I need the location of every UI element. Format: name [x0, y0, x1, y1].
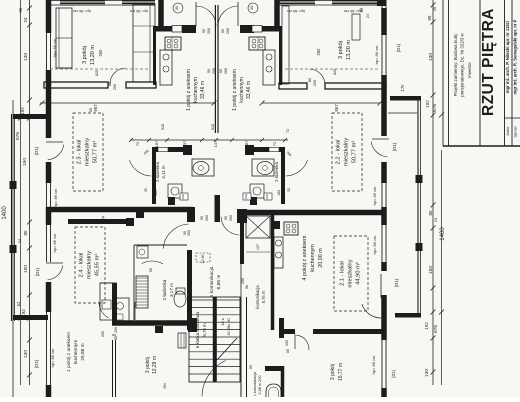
- svg-text:(D1): (D1): [396, 43, 401, 52]
- svg-text:80: 80: [249, 365, 253, 369]
- svg-text:200: 200: [229, 215, 233, 221]
- svg-text:kuchennym: kuchennym: [193, 77, 199, 103]
- svg-text:hp= 86 cm: hp= 86 cm: [52, 233, 57, 252]
- svg-text:13,20 m: 13,20 m: [346, 40, 352, 60]
- svg-text:50,77 m²: 50,77 m²: [352, 141, 358, 164]
- svg-text:200: 200: [226, 28, 230, 34]
- svg-text:200: 200: [207, 28, 211, 34]
- svg-text:192: 192: [20, 107, 25, 115]
- svg-text:137: 137: [256, 244, 260, 250]
- svg-text:3 pokój: 3 pokój: [330, 364, 336, 380]
- svg-text:5 komunikacja: 5 komunikacja: [209, 266, 215, 297]
- svg-text:30: 30: [249, 5, 254, 10]
- svg-text:90: 90: [207, 69, 211, 73]
- svg-text:90: 90: [202, 29, 206, 33]
- svg-text:96: 96: [245, 285, 249, 289]
- svg-text:RZUT PIĘTRA: RZUT PIĘTRA: [480, 8, 497, 116]
- svg-text:528: 528: [211, 124, 215, 130]
- svg-text:6,86 m: 6,86 m: [216, 275, 222, 290]
- svg-text:2 łazienka: 2 łazienka: [155, 162, 160, 182]
- svg-text:187: 187: [154, 140, 159, 147]
- svg-text:130: 130: [428, 53, 434, 61]
- svg-text:26: 26: [432, 6, 437, 11]
- svg-text:130: 130: [424, 369, 430, 377]
- svg-text:2 łazienka: 2 łazienka: [274, 162, 279, 182]
- svg-text:(D1): (D1): [392, 142, 397, 151]
- svg-text:200: 200: [187, 230, 191, 236]
- svg-text:72: 72: [272, 141, 277, 146]
- svg-text:3 pokój: 3 pokój: [82, 46, 88, 64]
- svg-text:95: 95: [427, 15, 432, 21]
- svg-text:80: 80: [286, 349, 290, 353]
- svg-text:1 pokój z aneksem: 1 pokój z aneksem: [232, 69, 238, 111]
- svg-text:676: 676: [433, 325, 439, 333]
- svg-text:9,75 m: 9,75 m: [202, 323, 207, 337]
- svg-text:192: 192: [425, 100, 430, 108]
- svg-text:hp= 86 cm: hp= 86 cm: [372, 186, 377, 205]
- svg-text:250: 250: [98, 49, 103, 57]
- svg-text:pensjonatowego, Dz. Nr 322/3 w: pensjonatowego, Dz. Nr 322/3 w: [460, 32, 465, 96]
- svg-text:(D2): (D2): [244, 194, 248, 200]
- svg-text:45,55 m²: 45,55 m²: [95, 254, 101, 277]
- svg-text:mieszkalny: mieszkalny: [85, 138, 91, 166]
- svg-text:mieszkalny: mieszkalny: [348, 259, 354, 287]
- svg-text:957: 957: [334, 104, 339, 112]
- svg-text:Autor: Autor: [505, 126, 510, 136]
- svg-text:1 pokój z aneksem: 1 pokój z aneksem: [186, 69, 192, 111]
- svg-text:85: 85: [23, 230, 28, 236]
- svg-text:184: 184: [154, 190, 158, 196]
- svg-text:4 pokój z aneksem: 4 pokój z aneksem: [302, 235, 308, 280]
- svg-text:5,75 m: 5,75 m: [261, 290, 266, 303]
- svg-text:13,20 m: 13,20 m: [90, 45, 96, 65]
- svg-text:24: 24: [17, 238, 22, 243]
- svg-text:1400: 1400: [2, 206, 8, 220]
- svg-text:hp= 66 cm: hp= 66 cm: [344, 9, 362, 13]
- svg-text:12,90: 12,90: [201, 255, 205, 264]
- svg-text:30: 30: [174, 5, 179, 10]
- svg-text:200: 200: [224, 68, 228, 74]
- svg-text:825: 825: [95, 70, 99, 76]
- svg-text:200: 200: [113, 84, 117, 90]
- svg-text:72: 72: [135, 141, 140, 146]
- svg-text:16,08x 30: 16,08x 30: [226, 317, 231, 335]
- svg-text:33,46 m: 33,46 m: [246, 81, 252, 99]
- svg-text:24: 24: [433, 217, 438, 222]
- svg-text:170: 170: [400, 84, 405, 92]
- svg-text:Projekt zamienny: Budowa budy: Projekt zamienny: Budowa budy: [453, 33, 458, 97]
- svg-text:200: 200: [241, 278, 245, 284]
- svg-text:130: 130: [23, 53, 29, 61]
- svg-text:200: 200: [101, 331, 105, 337]
- svg-text:hp= 86 cm: hp= 86 cm: [372, 235, 377, 254]
- svg-text:80: 80: [308, 78, 312, 82]
- svg-text:24: 24: [23, 17, 28, 23]
- svg-text:hp= 86 cm: hp= 86 cm: [371, 355, 376, 374]
- svg-text:50: 50: [89, 108, 93, 112]
- svg-text:hp= 86 cm: hp= 86 cm: [50, 348, 55, 367]
- svg-text:18 x: 18 x: [220, 318, 225, 326]
- svg-text:200: 200: [313, 80, 317, 86]
- svg-text:komunikacja: komunikacja: [255, 285, 260, 309]
- svg-text:3 pokój: 3 pokój: [145, 357, 151, 373]
- svg-text:72: 72: [286, 129, 290, 133]
- svg-text:(D1): (D1): [34, 146, 39, 155]
- svg-text:150: 150: [22, 158, 28, 166]
- svg-text:184: 184: [277, 190, 281, 196]
- svg-text:2.3 - lokal: 2.3 - lokal: [77, 140, 83, 165]
- svg-text:(D1): (D1): [394, 278, 399, 287]
- svg-text:50: 50: [219, 69, 223, 73]
- svg-text:1 pokój z aneksem: 1 pokój z aneksem: [66, 332, 72, 372]
- svg-text:4,11 m: 4,11 m: [280, 165, 285, 178]
- svg-text:kuchennym: kuchennym: [239, 77, 245, 103]
- svg-text:(D2): (D2): [181, 194, 185, 200]
- svg-text:mgr inż. arch. R. Semagalski u: mgr inż. arch. R. Semagalski upr. nr P: [513, 19, 518, 94]
- svg-text:1 komunikacja: 1 komunikacja: [253, 371, 257, 396]
- svg-text:mieszkalny: mieszkalny: [87, 251, 93, 279]
- svg-text:20,00 m: 20,00 m: [318, 248, 324, 268]
- svg-text:(D2): (D2): [265, 194, 269, 200]
- svg-text:(D1): (D1): [35, 267, 40, 276]
- svg-text:Spraw: Spraw: [513, 126, 518, 137]
- svg-text:Inwestor: Inwestor: [467, 61, 472, 77]
- svg-text:(D1): (D1): [391, 369, 396, 378]
- svg-text:33,46 m: 33,46 m: [200, 81, 206, 99]
- svg-text:29,88 m: 29,88 m: [80, 343, 86, 360]
- svg-text:50,77 m²: 50,77 m²: [93, 141, 99, 164]
- svg-text:85: 85: [428, 210, 433, 216]
- svg-text:150: 150: [428, 266, 434, 274]
- svg-text:90: 90: [200, 216, 204, 220]
- svg-text:200: 200: [285, 340, 289, 346]
- svg-text:hp= 86 cm: hp= 86 cm: [53, 188, 58, 207]
- svg-text:95: 95: [18, 7, 23, 13]
- svg-text:62: 62: [16, 301, 21, 306]
- svg-text:85: 85: [114, 336, 118, 340]
- svg-text:hp: hp: [101, 216, 105, 220]
- svg-text:192: 192: [424, 322, 429, 330]
- svg-text:mgr inż. arch. P. Nitecki upr.: mgr inż. arch. P. Nitecki upr. nr 1151/: [505, 20, 510, 93]
- svg-text:528: 528: [161, 124, 165, 130]
- svg-text:kuchennym: kuchennym: [73, 340, 79, 365]
- svg-text:2.1 - lokal: 2.1 - lokal: [340, 261, 346, 286]
- svg-text:80: 80: [108, 82, 112, 86]
- svg-text:2,58 m 200: 2,58 m 200: [258, 376, 262, 395]
- svg-text:2.2 - lokal: 2.2 - lokal: [336, 140, 342, 165]
- svg-text:35: 35: [287, 188, 291, 192]
- svg-text:24: 24: [366, 14, 370, 18]
- svg-text:676: 676: [15, 132, 21, 140]
- svg-text:676: 676: [432, 104, 438, 112]
- svg-text:2 łazienka: 2 łazienka: [162, 279, 167, 300]
- svg-text:200: 200: [205, 215, 209, 221]
- svg-text:3 pokój: 3 pokój: [338, 41, 344, 59]
- svg-text:hp= 66 cm: hp= 66 cm: [73, 9, 91, 13]
- svg-text:35: 35: [144, 188, 148, 192]
- svg-text:hp= 66 cm: hp= 66 cm: [287, 9, 305, 13]
- svg-text:3,17 m: 3,17 m: [169, 283, 174, 297]
- svg-text:957: 957: [93, 104, 98, 112]
- svg-text:90: 90: [224, 216, 228, 220]
- svg-text:hp= 86 cm: hp= 86 cm: [374, 45, 379, 64]
- svg-text:44,90 m²: 44,90 m²: [356, 262, 362, 285]
- svg-text:284: 284: [163, 383, 167, 389]
- svg-text:137: 137: [213, 140, 218, 147]
- svg-text:mieszkalny: mieszkalny: [344, 138, 350, 166]
- svg-text:150: 150: [23, 265, 29, 273]
- svg-text:15,77 m: 15,77 m: [338, 363, 344, 381]
- svg-text:kuchennym: kuchennym: [310, 244, 316, 272]
- svg-text:12,29 m: 12,29 m: [152, 356, 158, 374]
- svg-text:2.4 - lokal: 2.4 - lokal: [79, 253, 85, 278]
- svg-text:825: 825: [333, 69, 337, 75]
- svg-text:200: 200: [114, 327, 118, 333]
- svg-text:1400: 1400: [440, 227, 446, 241]
- svg-text:90: 90: [221, 29, 225, 33]
- svg-text:90: 90: [149, 268, 153, 272]
- svg-text:(D1): (D1): [34, 359, 39, 368]
- svg-text:4,11 m: 4,11 m: [161, 165, 166, 178]
- svg-text:250: 250: [316, 48, 321, 56]
- svg-text:130: 130: [23, 350, 29, 358]
